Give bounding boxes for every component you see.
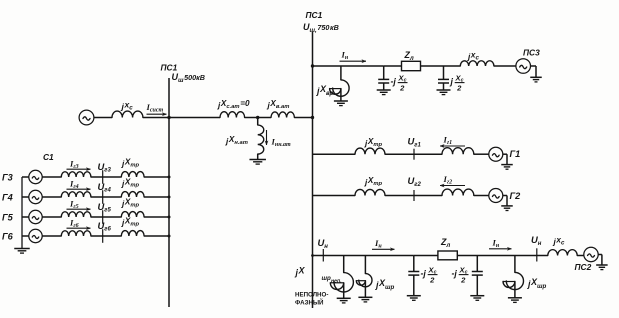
shunt reactor jXшр (left)	[356, 256, 372, 302]
label jXв.ат	[267, 99, 290, 110]
shunt reactor jXвр	[330, 66, 350, 106]
label jXc/2 (top right)	[450, 74, 465, 93]
svg-text:ПС3: ПС3	[523, 48, 540, 58]
svg-text:Г4: Г4	[2, 192, 13, 202]
wire ПС3 to ground	[531, 66, 537, 77]
wire left bus to Г4	[22, 196, 29, 198]
label Uг6	[98, 220, 112, 233]
svg-text:С1: С1	[43, 152, 54, 162]
svg-text:-j: -j	[391, 77, 397, 87]
current arrow Icист	[146, 102, 167, 116]
svg-text:ФАЗНЫЙ: ФАЗНЫЙ	[295, 299, 324, 307]
node bus1/Г3 junction	[168, 176, 171, 179]
impedance box Zл (top)	[402, 61, 421, 70]
wire Г3 to coil	[42, 176, 61, 178]
svg-text:ПС1: ПС1	[306, 10, 323, 20]
current arrow Iг2	[440, 174, 465, 187]
wire Xтр to bus1 (Г3)	[144, 176, 169, 178]
wire cap to box (top)	[384, 65, 402, 67]
bus left common (generator neutral)	[21, 177, 23, 249]
label Г5	[2, 212, 14, 222]
voltage source Г1	[489, 147, 503, 161]
wire left bus to Г3	[22, 176, 29, 178]
label Uг3	[98, 161, 112, 174]
ground (AT tertiary)	[249, 160, 266, 165]
svg-text:Г6: Г6	[2, 231, 14, 241]
label Uш 750кВ	[303, 22, 339, 34]
current arrow Iг3	[67, 159, 91, 171]
svg-text:2: 2	[456, 84, 462, 93]
svg-text:шр: шр	[322, 275, 332, 282]
label jXтр (Г6)	[121, 217, 140, 228]
svg-text:ПС1: ПС1	[161, 63, 178, 73]
voltage source Г2	[489, 189, 503, 203]
wire coil to Uг6 tick	[91, 235, 121, 237]
label Uг2	[408, 175, 422, 188]
label ПС2	[575, 262, 592, 272]
label jXшр.неп	[295, 266, 342, 285]
svg-text:Г3: Г3	[2, 172, 13, 182]
label С1	[43, 152, 54, 162]
current arrow Iг4	[67, 179, 91, 191]
node Uг2 tick	[413, 190, 415, 201]
capacitor jXc/2 (top line, right)	[437, 66, 451, 95]
current arrow Iн (bottom left)	[372, 238, 395, 251]
inductor (Г3 reactance)	[61, 172, 91, 177]
capacitor -jXc/2 (bottom, right)	[470, 256, 484, 301]
wire coil to Uг4 tick	[91, 196, 121, 198]
label jXтр (Г3)	[121, 158, 140, 169]
bus ПС1 750kV vertical	[312, 32, 314, 308]
label -jXc/2 (bottom left)	[421, 266, 438, 285]
current arrow Iг6	[67, 218, 91, 230]
label Uн (left)	[318, 237, 329, 250]
wire coil to Г2	[474, 195, 489, 197]
label jXтр (Г4)	[121, 178, 140, 189]
ground (generator group)	[14, 249, 30, 254]
capacitor -jXc/2 (bottom, left)	[407, 256, 421, 301]
current arrow Iнн.ат	[265, 130, 291, 148]
wire node T down	[257, 118, 259, 126]
wire coil to Г1	[474, 153, 489, 155]
node bus1/Г5 junction	[168, 216, 171, 219]
inductor (Г6 reactance)	[61, 231, 91, 236]
svg-text:2: 2	[460, 276, 466, 285]
inductor (Г5 reactance)	[61, 212, 91, 217]
label ПС1 (500kV)	[161, 63, 178, 73]
wire coil to Uг3 tick	[91, 176, 121, 178]
inductor jXc (to ПС3)	[460, 61, 494, 66]
inductor jXв.ат	[271, 112, 294, 118]
node bus1/main junction	[167, 116, 170, 119]
wire bus2 to line (top branch)	[313, 65, 384, 67]
label jXc (to ПС2)	[553, 236, 565, 247]
wire bus1 to Xc.ат	[169, 117, 220, 119]
label Uн (right)	[531, 234, 542, 247]
svg-text:2: 2	[429, 276, 435, 285]
current arrow Iг1	[440, 135, 465, 148]
wire Xв.ат to bus2	[294, 117, 312, 119]
voltage source Г6	[29, 229, 42, 242]
voltage source Г5	[29, 210, 42, 223]
current arrow Iн (bottom right)	[489, 238, 512, 251]
svg-text:Г1: Г1	[510, 149, 521, 159]
inductor jXтр (Г4)	[121, 192, 144, 197]
ground (Г1)	[501, 165, 513, 170]
wire Xтр to U tick (Г2)	[385, 195, 442, 197]
svg-text:2: 2	[399, 84, 405, 93]
voltage source ПС2	[584, 247, 598, 261]
svg-text:Г2: Г2	[510, 191, 522, 201]
label jXтр (Г5)	[121, 198, 140, 209]
wire Г6 to coil	[42, 235, 61, 237]
voltage source C (system)	[79, 110, 94, 125]
label Zл (bottom)	[440, 237, 450, 249]
label ПС3	[523, 48, 540, 58]
inductor (Г1 reactance)	[442, 148, 474, 154]
label jXтр (Г2)	[364, 176, 383, 187]
svg-text:Г5: Г5	[2, 212, 14, 222]
wire bus2 to Xтр (Г2)	[313, 195, 356, 197]
bus ПС1 500kV vertical	[168, 78, 170, 307]
wire left bus to Г5	[22, 216, 29, 218]
shunt reactor jXшр (right)	[503, 256, 523, 303]
label Г2	[510, 191, 522, 201]
node bus2/bottom junction	[311, 254, 314, 257]
svg-text:j: j	[450, 77, 454, 87]
node Uг3 tick	[102, 170, 104, 184]
svg-text:-j: -j	[452, 269, 458, 279]
svg-text:-j: -j	[421, 269, 427, 279]
label -jXc/2 (top left)	[391, 74, 408, 93]
wire coil to ПС2	[577, 255, 584, 257]
svg-text:НЕПОЛНО-: НЕПОЛНО-	[295, 292, 328, 299]
label jXтр (Г1)	[364, 137, 383, 148]
current arrow Iг5	[67, 199, 91, 211]
label Uг1	[408, 136, 422, 149]
inductor jXтр (Г1)	[355, 148, 385, 154]
label jXвр	[316, 84, 334, 97]
wire box to cap2 (bottom)	[457, 255, 548, 257]
wire bus2 to line (bottom)	[313, 255, 414, 257]
wire box to cap (top)	[421, 65, 461, 67]
node T (AT star point)	[256, 116, 259, 119]
wire source to reactor Xc	[94, 117, 112, 119]
node Uг6 tick	[102, 229, 104, 243]
node bus1/Г4 junction	[168, 196, 171, 199]
wire Г4 to coil	[42, 196, 61, 198]
inductor jXc (system)	[112, 111, 143, 117]
label Г6	[2, 231, 14, 241]
ground (ПС2)	[596, 265, 608, 270]
inductor jXтр (Г3)	[121, 172, 144, 177]
wire Г1 to ground	[503, 154, 507, 164]
wire reactor to bus1	[143, 117, 169, 119]
label jXшр (left)	[375, 278, 394, 291]
ground (ПС3)	[530, 77, 542, 82]
label jXн.ат	[225, 135, 248, 146]
wire bus2 to Xтр (Г1)	[313, 153, 356, 155]
wire Xтр to bus1 (Г6)	[144, 235, 169, 237]
label Г3	[2, 172, 13, 182]
inductor jXc (to ПС2)	[548, 250, 577, 256]
label jXc (to ПС3)	[467, 51, 479, 62]
wire ПС2 to ground	[598, 255, 602, 266]
label jXшр (right)	[527, 277, 546, 290]
inductor (Г4 reactance)	[61, 192, 91, 197]
label jXс.ат=0	[217, 99, 250, 110]
node bus2/top-branch junction	[311, 64, 314, 67]
voltage source ПС3	[516, 59, 531, 74]
svg-text:неп.: неп.	[331, 278, 342, 284]
label Г4	[2, 192, 13, 202]
node bus2/AT junction	[311, 116, 314, 119]
node Uг1 tick	[413, 149, 415, 160]
label jXc	[121, 100, 134, 112]
wire coil to ПС3	[494, 65, 516, 67]
node Uг4 tick	[102, 190, 104, 204]
label Uг5	[98, 201, 112, 214]
label неполно-фазный	[295, 292, 328, 307]
voltage source Г4	[29, 190, 42, 203]
wire node T to Xв.ат	[258, 117, 271, 119]
wire coil to ground (AT)	[257, 154, 259, 159]
label Г1	[510, 149, 521, 159]
wire cap1 to box (bottom)	[414, 255, 438, 257]
wire Xтр to bus1 (Г4)	[144, 196, 169, 198]
wire Г5 to coil	[42, 216, 61, 218]
current arrow Iн (top)	[340, 50, 367, 63]
label Zл (top)	[404, 50, 414, 62]
wire left bus to Г6	[22, 235, 29, 237]
ground (Г2)	[501, 206, 513, 211]
node Uг5 tick	[102, 210, 104, 224]
inductor jXтр (Г6)	[121, 231, 144, 236]
inductor jXтр (Г5)	[121, 212, 144, 217]
inductor (Г2 reactance)	[442, 189, 474, 195]
wire Г2 to ground	[503, 196, 507, 206]
node Uн tick (left)	[322, 249, 324, 262]
capacitor -jXc/2 (top line, left)	[377, 66, 391, 95]
label Uш 500кВ	[172, 72, 205, 84]
impedance box Zл (bottom)	[438, 251, 457, 260]
wire Xтр to bus1 (Г5)	[144, 216, 169, 218]
node Uн tick (right)	[536, 248, 538, 261]
wire coil to Uг5 tick	[91, 216, 121, 218]
svg-text:ПС2: ПС2	[575, 262, 592, 272]
node bus1/Г6 junction	[168, 235, 171, 238]
label ПС1 (750kV)	[306, 10, 323, 20]
inductor jXтр (Г2)	[355, 189, 385, 195]
inductor jXн.ат (vertical)	[258, 125, 264, 154]
label Uг4	[98, 181, 112, 194]
wire Xс.ат to node T	[245, 117, 258, 119]
inductor jXс.ат	[220, 112, 245, 118]
wire Xтр to U tick (Г1)	[385, 153, 442, 155]
shunt reactor jXшр.неп	[330, 256, 353, 303]
label -jXc/2 (bottom right)	[452, 266, 469, 285]
voltage source Г3	[29, 170, 42, 183]
